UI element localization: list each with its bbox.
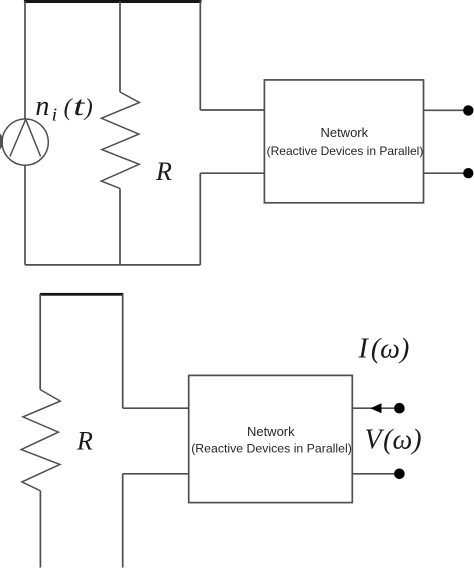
svg-text:): ) (83, 95, 93, 121)
svg-text:(Reactive Devices in Parallel): (Reactive Devices in Parallel) (267, 144, 424, 158)
svg-text:V(ω): V(ω) (365, 425, 422, 456)
svg-text:R: R (155, 157, 172, 186)
svg-text:(Reactive Devices in Parallel): (Reactive Devices in Parallel) (191, 442, 352, 456)
svg-text:Network: Network (320, 125, 368, 140)
svg-text:n: n (35, 90, 49, 122)
svg-text:i: i (52, 104, 58, 124)
svg-text:Network: Network (247, 424, 295, 439)
svg-text:(: ( (64, 95, 74, 121)
svg-text:R: R (76, 427, 93, 456)
svg-text:I(ω): I(ω) (358, 334, 410, 365)
